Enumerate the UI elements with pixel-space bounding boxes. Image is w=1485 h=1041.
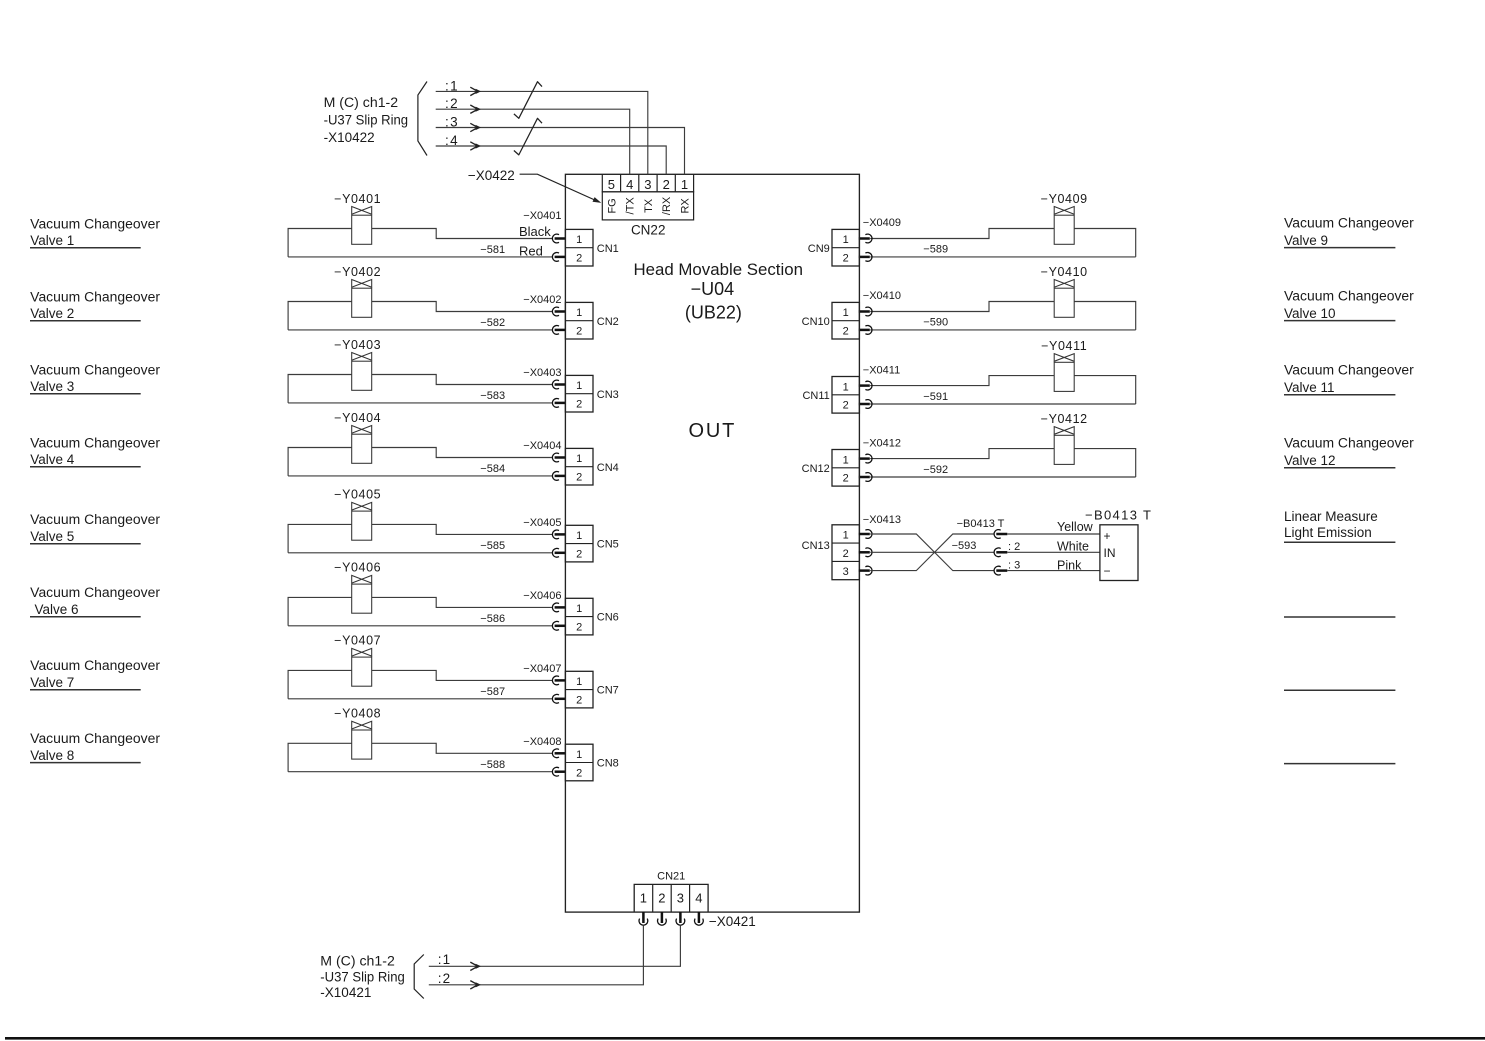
svg-text:CN4: CN4 [597, 462, 619, 474]
node Vacuum Changeover Valve 11 label [1284, 362, 1414, 395]
svg-text:2: 2 [576, 399, 582, 411]
svg-text:CN10: CN10 [802, 316, 830, 328]
svg-text:Light Emission: Light Emission [1284, 525, 1372, 540]
svg-text:−X0410: −X0410 [863, 290, 901, 302]
valve Y0407 [334, 634, 381, 686]
svg-text:1: 1 [576, 380, 582, 392]
svg-text:CN1: CN1 [597, 243, 619, 255]
contact B0413 pin 2 [994, 548, 1001, 557]
svg-text:2: 2 [843, 400, 849, 412]
svg-text:FG: FG [606, 198, 618, 213]
svg-text:−X0403: −X0403 [523, 367, 561, 379]
svg-text:3: 3 [644, 177, 651, 192]
svg-text:2: 2 [663, 177, 670, 192]
connector CN10 [802, 302, 860, 339]
node Vacuum Changeover Valve 2 label [30, 289, 161, 321]
svg-text:Vacuum Changeover: Vacuum Changeover [30, 289, 160, 304]
svg-text:−583: −583 [480, 390, 505, 402]
svg-text:4: 4 [626, 177, 633, 192]
contact X0421 pin 2 [658, 919, 667, 926]
contact X0409 pin 2 [865, 252, 872, 261]
svg-text:Red: Red [519, 243, 543, 258]
svg-text:Valve 12: Valve 12 [1284, 453, 1336, 468]
wire X10422:4 to CN22 [436, 146, 667, 174]
svg-text:−X0406: −X0406 [523, 590, 561, 602]
svg-text:−584: −584 [480, 463, 505, 475]
node Vacuum Changeover Valve 5 label [30, 512, 161, 544]
svg-text:Head Movable Section: Head Movable Section [633, 260, 803, 279]
svg-text:Valve 10: Valve 10 [1284, 306, 1336, 321]
svg-text:-X10421: -X10421 [320, 985, 371, 1000]
svg-text:−587: −587 [480, 686, 505, 698]
contact X0404 pin 2 [552, 472, 559, 481]
svg-text:1: 1 [576, 453, 582, 465]
svg-text:Valve 5: Valve 5 [30, 529, 74, 544]
contact X0413 pin 1 [865, 530, 872, 539]
wire -592 X0412 to valve Y0412 [870, 449, 1135, 477]
svg-text:Vacuum Changeover: Vacuum Changeover [30, 658, 160, 673]
svg-text:−Y0405: −Y0405 [334, 488, 381, 502]
contact X0401 pin 1 [552, 234, 559, 243]
svg-text:−Y0402: −Y0402 [334, 265, 381, 279]
contact X0406 pin 1 [552, 603, 559, 612]
svg-text:3: 3 [843, 566, 849, 578]
contact X0408 pin 1 [552, 749, 559, 758]
connector CN8 [565, 744, 618, 781]
connector CN7 [565, 671, 618, 708]
wire B0413 leads [1007, 534, 1100, 571]
connector CN22 [602, 174, 693, 237]
svg-text:−Y0403: −Y0403 [334, 338, 381, 352]
svg-text:−Y0409: −Y0409 [1041, 192, 1088, 206]
connector X0422 label with leader arrow [468, 168, 601, 203]
node Vacuum Changeover Valve 4 label [30, 435, 161, 467]
svg-text:+: + [1104, 529, 1111, 543]
svg-text:Pink: Pink [1057, 558, 1082, 572]
svg-text:4: 4 [695, 891, 702, 906]
wire -587 valve Y0407 to X0407 [288, 670, 552, 698]
node Head Movable Section title [633, 260, 803, 323]
svg-text:−586: −586 [480, 613, 505, 625]
svg-text:−Y0412: −Y0412 [1041, 412, 1088, 426]
wire -586 valve Y0406 to X0406 [288, 597, 552, 625]
svg-text:CN13: CN13 [802, 540, 830, 552]
Head Movable Section unit U04 box [565, 174, 859, 912]
node U37 Slip Ring X10422 label [324, 95, 409, 145]
wire -589 X0409 to valve Y0409 [870, 229, 1135, 257]
svg-text:White: White [1057, 539, 1089, 553]
svg-text:Valve 9: Valve 9 [1284, 233, 1328, 248]
wire -585 valve Y0405 to X0405 [288, 524, 552, 552]
contact X0410 pin 1 [865, 307, 872, 316]
svg-text:: 3: : 3 [1008, 560, 1020, 572]
svg-text::1: :1 [438, 952, 451, 967]
contact X0411 pin 1 [865, 381, 872, 390]
contact X0413 pin 2 [865, 548, 872, 557]
contact X0406 pin 2 [552, 621, 559, 630]
svg-text:−X0405: −X0405 [523, 517, 561, 529]
svg-text:−591: −591 [923, 391, 948, 403]
svg-text:1: 1 [640, 891, 647, 906]
wire X10422:3 to CN22 [436, 128, 685, 175]
wire X10422:2 to CN22 [436, 109, 630, 174]
wire X10422:1 to CN22 [436, 91, 648, 174]
svg-text:Valve 11: Valve 11 [1284, 380, 1335, 395]
svg-text:1: 1 [576, 676, 582, 688]
connector CN12 [802, 450, 860, 487]
valve Y0409 [1041, 192, 1088, 245]
page bottom border [5, 1037, 1485, 1040]
svg-text:−U04: −U04 [691, 279, 735, 299]
svg-text::2: :2 [438, 971, 451, 986]
svg-text:M (C) ch1-2: M (C) ch1-2 [320, 954, 395, 969]
contact X0421 pin 3 [676, 919, 685, 926]
svg-text:−X0404: −X0404 [523, 440, 561, 452]
svg-text:Valve 7: Valve 7 [30, 675, 74, 690]
svg-text:3: 3 [677, 891, 684, 906]
contact X0402 pin 1 [552, 307, 559, 316]
valve Y0404 [334, 411, 381, 464]
svg-text:(UB22): (UB22) [685, 303, 742, 323]
svg-text:−Y0401: −Y0401 [334, 192, 381, 206]
connector CN21 [634, 870, 708, 912]
svg-text:OUT: OUT [688, 420, 736, 442]
svg-text:−Y0411: −Y0411 [1041, 339, 1087, 353]
svg-text:CN21: CN21 [657, 870, 685, 882]
contact X0404 pin 1 [552, 453, 559, 462]
svg-text:Linear Measure: Linear Measure [1284, 509, 1378, 524]
connector CN11 [802, 377, 859, 414]
sensor B0413 light emission unit [1100, 525, 1138, 581]
svg-text:/RX: /RX [661, 196, 673, 215]
wire -590 X0410 to valve Y0410 [870, 302, 1135, 330]
svg-text:−X0401: −X0401 [523, 210, 561, 222]
svg-text:-U37 Slip Ring: -U37 Slip Ring [324, 113, 409, 128]
wire X10421:1 to CN21 pin 3 [429, 925, 681, 966]
contact B0413 pin 1 [994, 530, 1001, 539]
node empty signal rule [1284, 616, 1395, 618]
svg-text:CN6: CN6 [597, 612, 619, 624]
svg-text:-X10422: -X10422 [324, 130, 375, 145]
connector CN5 [565, 525, 618, 562]
svg-text:RX: RX [679, 198, 691, 214]
svg-text:−X0422: −X0422 [468, 168, 515, 183]
node Vacuum Changeover Valve 8 label [30, 731, 161, 763]
valve Y0401 [334, 192, 381, 245]
svg-text:CN12: CN12 [802, 463, 830, 475]
contact X0407 pin 1 [552, 676, 559, 685]
contact X0408 pin 2 [552, 767, 559, 776]
contact X0403 pin 2 [552, 399, 559, 408]
svg-text:Black: Black [519, 224, 551, 239]
contact X0421 pin 1 [639, 919, 648, 926]
svg-text:1: 1 [576, 234, 582, 246]
svg-text:: 2: : 2 [1008, 541, 1020, 553]
wire -583 valve Y0403 to X0403 [288, 375, 552, 403]
svg-text:−582: −582 [480, 317, 505, 329]
svg-text:−X0412: −X0412 [863, 437, 901, 449]
svg-text:CN3: CN3 [597, 389, 619, 401]
svg-text:CN8: CN8 [597, 758, 619, 770]
svg-text:2: 2 [843, 548, 849, 560]
svg-text:Vacuum Changeover: Vacuum Changeover [1284, 215, 1414, 230]
svg-text:2: 2 [576, 472, 582, 484]
connector CN4 [565, 448, 618, 485]
wire X10421:2 to CN21 pin 1 [429, 925, 644, 985]
node Vacuum Changeover Valve 1 label [30, 216, 161, 248]
wire -593 crossover CN13 to B0413 [870, 534, 994, 571]
svg-text:1: 1 [843, 530, 849, 542]
svg-text:1: 1 [681, 177, 688, 192]
valve Y0403 [334, 338, 381, 391]
svg-text:1: 1 [843, 234, 849, 246]
brace for slip ring X10421 [414, 955, 424, 999]
svg-text:1: 1 [576, 749, 582, 761]
valve Y0408 [334, 707, 381, 760]
svg-text:-U37 Slip Ring: -U37 Slip Ring [320, 969, 405, 984]
svg-text:−B0413 T: −B0413 T [957, 518, 1005, 530]
svg-text:2: 2 [576, 694, 582, 706]
contact X0421 pin 4 [695, 919, 704, 926]
svg-text:2: 2 [576, 253, 582, 265]
node empty signal rule [1284, 763, 1395, 765]
contact X0412 pin 2 [865, 473, 872, 482]
svg-text:−581: −581 [480, 244, 505, 256]
contact X0410 pin 2 [865, 326, 872, 335]
svg-text:−585: −585 [480, 540, 505, 552]
svg-text:CN2: CN2 [597, 316, 619, 328]
svg-text:Valve 4: Valve 4 [30, 452, 75, 467]
svg-text:2: 2 [658, 891, 665, 906]
svg-text:CN5: CN5 [597, 539, 619, 551]
svg-text:CN22: CN22 [631, 223, 666, 238]
twisted pair mark lines 3-4 [514, 118, 542, 155]
node Linear Measure Light Emission label [1284, 509, 1395, 543]
svg-text:−X0421: −X0421 [709, 914, 756, 929]
contact X0402 pin 2 [552, 326, 559, 335]
svg-text:−X0407: −X0407 [523, 663, 561, 675]
svg-text:2: 2 [576, 621, 582, 633]
svg-text:Vacuum Changeover: Vacuum Changeover [30, 731, 160, 746]
node Vacuum Changeover Valve 10 label [1284, 288, 1414, 321]
svg-text:−X0411: −X0411 [863, 364, 900, 376]
svg-text:−X0408: −X0408 [523, 736, 561, 748]
valve Y0405 [334, 488, 381, 541]
wire -591 X0411 to valve Y0411 [870, 376, 1135, 404]
wire -584 valve Y0404 to X0404 [288, 448, 552, 476]
contact X0411 pin 2 [865, 400, 872, 409]
svg-text:Vacuum Changeover: Vacuum Changeover [30, 435, 160, 450]
svg-text:−: − [1104, 564, 1111, 578]
wire -588 valve Y0408 to X0408 [288, 743, 552, 771]
svg-text:Vacuum Changeover: Vacuum Changeover [1284, 362, 1414, 377]
svg-text:1: 1 [843, 307, 849, 319]
svg-text:Valve 2: Valve 2 [30, 306, 74, 321]
connector CN6 [565, 598, 618, 635]
contact X0403 pin 1 [552, 380, 559, 389]
svg-text:−B0413 T: −B0413 T [1085, 507, 1151, 522]
svg-text:−589: −589 [923, 244, 948, 256]
svg-text:−X0409: −X0409 [863, 217, 901, 229]
node Vacuum Changeover Valve 12 label [1284, 435, 1414, 468]
connector CN2 [565, 302, 618, 339]
node Vacuum Changeover Valve 6 label [30, 585, 161, 617]
svg-text:−Y0408: −Y0408 [334, 707, 381, 721]
svg-text:2: 2 [576, 548, 582, 560]
svg-text:1: 1 [576, 530, 582, 542]
node Vacuum Changeover Valve 3 label [30, 362, 161, 394]
connector CN13 [802, 525, 860, 580]
node Vacuum Changeover Valve 9 label [1284, 215, 1414, 248]
svg-text:−Y0406: −Y0406 [334, 561, 381, 575]
svg-text:5: 5 [608, 177, 615, 192]
contact X0413 pin 3 [865, 566, 872, 575]
svg-text:Vacuum Changeover: Vacuum Changeover [30, 216, 160, 231]
svg-text:Vacuum Changeover: Vacuum Changeover [30, 585, 160, 600]
svg-text:−592: −592 [923, 464, 948, 476]
contact X0405 pin 2 [552, 548, 559, 557]
contact X0407 pin 2 [552, 694, 559, 703]
svg-text:Valve 1: Valve 1 [30, 233, 74, 248]
svg-text:−593: −593 [952, 540, 977, 552]
contact X0405 pin 1 [552, 530, 559, 539]
contact X0409 pin 1 [865, 234, 872, 243]
svg-text:CN11: CN11 [802, 390, 829, 402]
brace for slip ring X10422 [418, 82, 427, 156]
svg-text:Valve 6: Valve 6 [35, 602, 79, 617]
svg-text:TX: TX [643, 198, 655, 213]
svg-text:2: 2 [576, 767, 582, 779]
connector CN9 [808, 229, 860, 266]
svg-text:CN9: CN9 [808, 243, 830, 255]
svg-text:−590: −590 [923, 317, 948, 329]
twisted pair mark lines 1-2 [514, 82, 542, 119]
svg-text:2: 2 [843, 326, 849, 338]
svg-text:IN: IN [1104, 546, 1116, 560]
svg-text:/TX: /TX [625, 197, 637, 215]
valve Y0410 [1041, 265, 1088, 318]
svg-text:2: 2 [843, 473, 849, 485]
svg-text:M (C) ch1-2: M (C) ch1-2 [324, 95, 399, 110]
svg-text:1: 1 [576, 307, 582, 319]
valve Y0411 [1041, 339, 1087, 392]
svg-text:Vacuum Changeover: Vacuum Changeover [1284, 435, 1414, 450]
svg-text:Vacuum Changeover: Vacuum Changeover [1284, 288, 1414, 303]
contact X0401 pin 2 [552, 253, 559, 262]
svg-text:Vacuum Changeover: Vacuum Changeover [30, 362, 160, 377]
node Vacuum Changeover Valve 7 label [30, 658, 161, 690]
svg-text:2: 2 [576, 326, 582, 338]
valve Y0406 [334, 561, 381, 613]
svg-text:Valve 3: Valve 3 [30, 379, 74, 394]
svg-text:1: 1 [843, 381, 849, 393]
svg-text:−X0413: −X0413 [863, 514, 901, 526]
node U37 Slip Ring X10421 label [320, 954, 405, 1000]
wire -581 valve Y0401 to X0401 [288, 229, 552, 257]
valve Y0412 [1041, 412, 1088, 465]
svg-text:2: 2 [843, 253, 849, 265]
connector CN3 [565, 375, 618, 412]
contact B0413 pin 3 [994, 566, 1001, 575]
svg-text:Valve 8: Valve 8 [30, 748, 74, 763]
svg-text:Vacuum Changeover: Vacuum Changeover [30, 512, 160, 527]
svg-text:−Y0410: −Y0410 [1041, 265, 1088, 279]
svg-text:CN7: CN7 [597, 685, 619, 697]
valve Y0402 [334, 265, 381, 318]
node empty signal rule [1284, 689, 1395, 691]
connector CN1 [565, 229, 618, 266]
wire -582 valve Y0402 to X0402 [288, 302, 552, 330]
contact X0412 pin 1 [865, 454, 872, 463]
svg-text:−Y0407: −Y0407 [334, 634, 381, 648]
svg-text:−588: −588 [480, 759, 505, 771]
svg-text:1: 1 [843, 454, 849, 466]
svg-text:−Y0404: −Y0404 [334, 411, 381, 425]
svg-text:−X0402: −X0402 [523, 294, 561, 306]
svg-text:1: 1 [576, 603, 582, 615]
